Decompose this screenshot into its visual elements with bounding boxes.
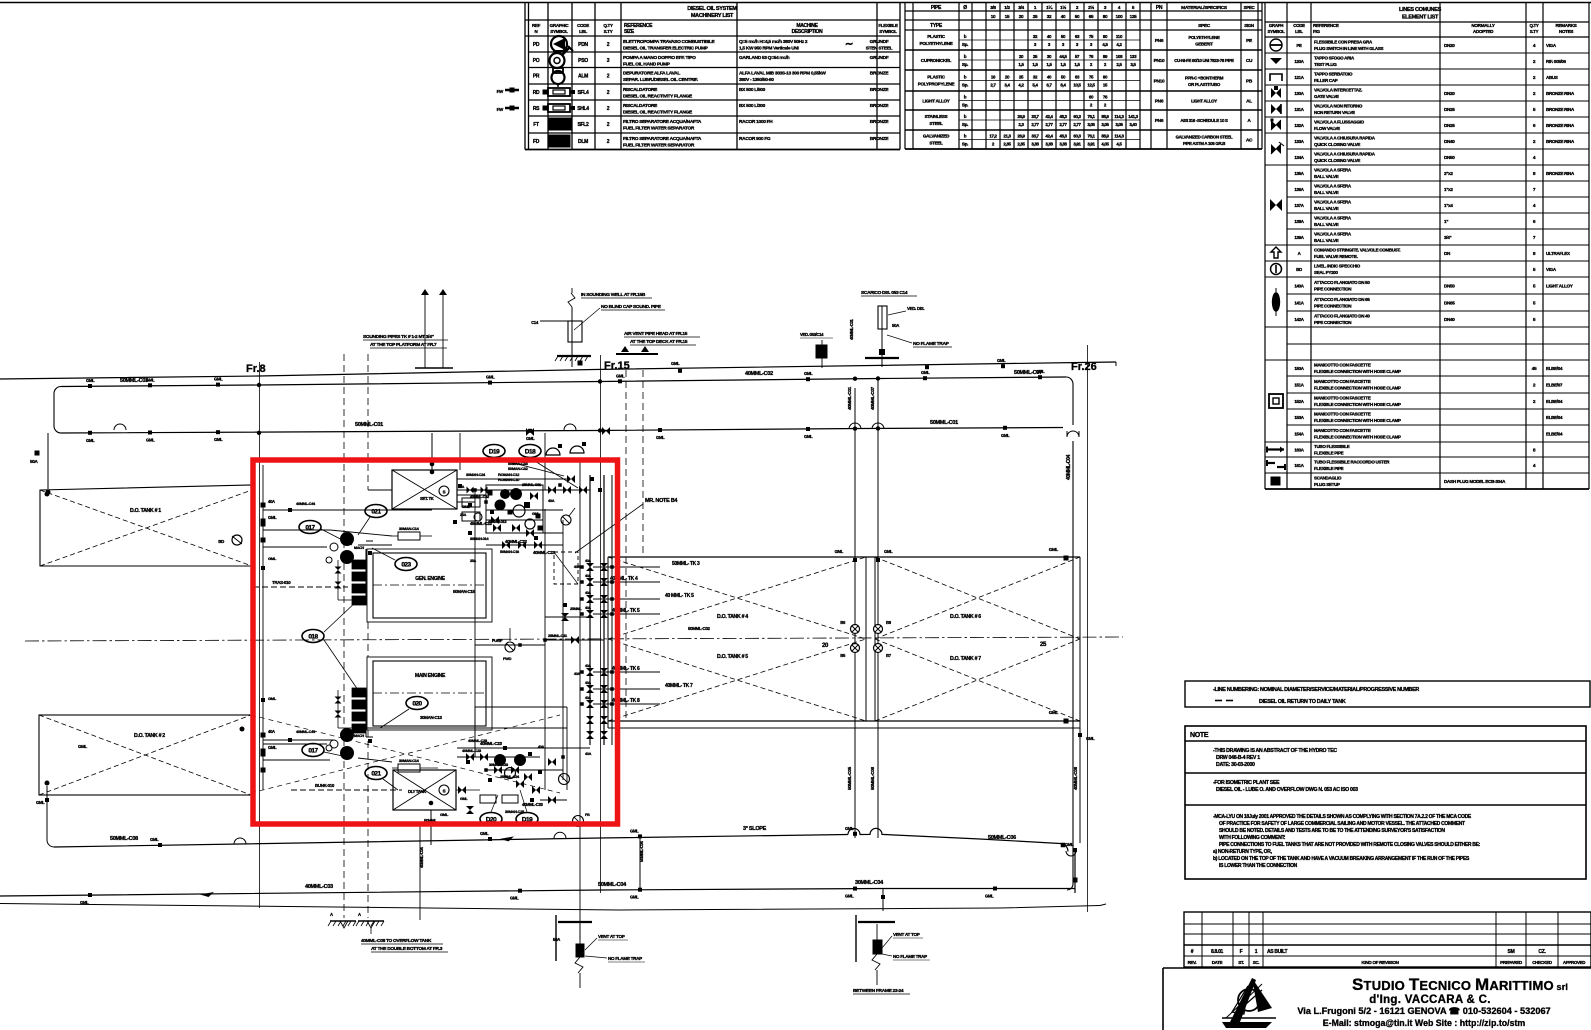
svg-text:DATE: 30-03-2000: DATE: 30-03-2000 bbox=[1216, 762, 1255, 768]
extra fuel piping detail top cluster bbox=[457, 483, 590, 541]
legend symbol gate valve bbox=[1271, 86, 1281, 98]
legend symbol quick closing valve bbox=[1271, 142, 1284, 154]
svg-text:SCARICO DIS. 053 C14: SCARICO DIS. 053 C14 bbox=[861, 290, 908, 296]
svg-text:133: 133 bbox=[1130, 54, 1137, 59]
label 018 bbox=[302, 600, 358, 690]
svg-text:3,05: 3,05 bbox=[1101, 122, 1109, 127]
svg-text:AL: AL bbox=[1246, 99, 1252, 105]
legend symbol remote control bbox=[1271, 247, 1281, 258]
svg-text:BETWEEN FRAME 23-24: BETWEEN FRAME 23-24 bbox=[853, 988, 904, 994]
label 021 main bbox=[365, 767, 398, 791]
line C01 valve bbox=[526, 427, 610, 436]
svg-text:40A: 40A bbox=[585, 574, 591, 578]
svg-text:2,5: 2,5 bbox=[1116, 62, 1122, 67]
svg-text:STEEL: STEEL bbox=[929, 141, 943, 146]
svg-text:LIVEL. INDIC SPECCHIO: LIVEL. INDIC SPECCHIO bbox=[1314, 264, 1361, 269]
svg-text:MANICOTTO CON FASCETTE: MANICOTTO CON FASCETTE bbox=[1314, 396, 1371, 401]
svg-text:50MML-C06: 50MML-C06 bbox=[870, 766, 875, 790]
svg-text:GML: GML bbox=[150, 837, 159, 842]
svg-text:WITH FOLLOWING COMMENT:: WITH FOLLOWING COMMENT: bbox=[1219, 835, 1286, 841]
svg-text:TYPE: TYPE bbox=[930, 23, 943, 29]
label D19 bbox=[483, 445, 564, 477]
revision table bbox=[1184, 912, 1591, 967]
svg-text:GRUNDF: GRUNDF bbox=[870, 55, 889, 61]
engine room pipes horizontal bbox=[330, 490, 711, 762]
svg-text:ATTACCO FLANGIATO DN 40: ATTACCO FLANGIATO DN 40 bbox=[1314, 314, 1370, 319]
svg-text:DN50: DN50 bbox=[1444, 284, 1455, 289]
svg-text:3,38: 3,38 bbox=[1045, 142, 1053, 147]
daily tank drain bbox=[430, 810, 432, 845]
svg-text:REMARKS: REMARKS bbox=[1555, 23, 1576, 28]
svg-text:BRONZE RINA: BRONZE RINA bbox=[1546, 91, 1575, 96]
svg-text:44,5: 44,5 bbox=[1059, 54, 1067, 59]
sounding well detail engine room bbox=[553, 915, 645, 988]
svg-text:121A: 121A bbox=[1294, 75, 1304, 80]
transfer dashed line main bbox=[291, 783, 402, 790]
purifier unit bbox=[486, 472, 543, 533]
svg-text:40MML- TK 7: 40MML- TK 7 bbox=[665, 683, 693, 689]
svg-text:OR PLASTITUBO: OR PLASTITUBO bbox=[1188, 82, 1221, 87]
svg-text:25MML-C31: 25MML-C31 bbox=[548, 633, 568, 638]
svg-text:BRONZE: BRONZE bbox=[870, 103, 890, 109]
svg-text:40MML-C33: 40MML-C33 bbox=[522, 802, 544, 807]
svg-text:3,5: 3,5 bbox=[1130, 62, 1136, 67]
machinery list rows bbox=[533, 39, 893, 149]
svg-text:DEPURATORE ALFA LAVAL: DEPURATORE ALFA LAVAL bbox=[623, 71, 680, 77]
svg-text:VIGA: VIGA bbox=[1546, 43, 1557, 48]
svg-text:PLASTIC: PLASTIC bbox=[927, 75, 946, 80]
svg-text:DIESEL OIL REACTIVITY FL: DIESEL OIL REACTIVITY FLANGE bbox=[623, 94, 693, 100]
svg-text:GML: GML bbox=[1049, 547, 1059, 552]
tank D.O. TANK 5 cross bbox=[608, 639, 866, 721]
legend symbol filler cap bbox=[1270, 74, 1282, 81]
svg-text:TRAS-010: TRAS-010 bbox=[272, 580, 291, 585]
svg-text:IS LOWER THAN THE CONNECTI: IS LOWER THAN THE CONNECTION bbox=[1219, 863, 1298, 869]
svg-text:PURIF: PURIF bbox=[492, 638, 503, 643]
svg-text:1,5 KW 950 RPM Verticale UNI: 1,5 KW 950 RPM Verticale UNI bbox=[739, 46, 800, 52]
svg-text:80: 80 bbox=[1103, 14, 1108, 19]
svg-text:40MML-C07: 40MML-C07 bbox=[870, 386, 875, 410]
label 017 gen bbox=[299, 521, 352, 546]
svg-text:2,77: 2,77 bbox=[1073, 122, 1081, 127]
svg-text:TEST PLUG: TEST PLUG bbox=[1314, 62, 1337, 67]
svg-text:DIESEL OIL TRANSFER ELECTRIC P: DIESEL OIL TRANSFER ELECTRIC PUMP bbox=[623, 46, 709, 52]
svg-text:FILLER CAP: FILLER CAP bbox=[1314, 78, 1338, 83]
svg-text:PIPE ASTM A 106 GR.B: PIPE ASTM A 106 GR.B bbox=[1183, 141, 1225, 146]
svg-text:BX 500 L/300: BX 500 L/300 bbox=[739, 103, 766, 109]
label 023 bbox=[372, 548, 417, 571]
svg-text:SIZE: SIZE bbox=[624, 29, 635, 35]
svg-text:FWD: FWD bbox=[503, 656, 512, 661]
svg-text:TUBO FLESSIBILE: TUBO FLESSIBILE bbox=[1314, 444, 1350, 449]
svg-text:Q.TY: Q.TY bbox=[603, 23, 613, 28]
fittings legend header bbox=[1268, 23, 1577, 34]
svg-text:GALVANIZED: GALVANIZED bbox=[923, 134, 950, 139]
svg-text:GML: GML bbox=[146, 438, 155, 443]
settling tank riser bbox=[430, 433, 435, 470]
svg-text:GML: GML bbox=[460, 797, 468, 801]
svg-text:DIESEL OIL SYSTEM: DIESEL OIL SYSTEM bbox=[687, 6, 737, 12]
svg-text:ROMAN-C10: ROMAN-C10 bbox=[498, 477, 520, 482]
tank quick closing valves cluster bbox=[840, 620, 891, 658]
svg-text:ATTACCO FLANGIATO DN 50: ATTACCO FLANGIATO DN 50 bbox=[1314, 280, 1370, 285]
svg-text:GML: GML bbox=[985, 894, 994, 899]
tank1 level gauge bbox=[218, 535, 242, 545]
sounding detail right x882 bbox=[849, 290, 952, 367]
svg-text:2,7: 2,7 bbox=[990, 83, 996, 88]
svg-text:ULTRAFLEX: ULTRAFLEX bbox=[1546, 251, 1570, 256]
label D20 ellipses bbox=[480, 790, 538, 826]
svg-text:20: 20 bbox=[1019, 14, 1024, 19]
svg-text:MANICOTTO CON FASCETTE: MANICOTTO CON FASCETTE bbox=[1314, 379, 1371, 384]
svg-text:2"x2: 2"x2 bbox=[1444, 171, 1453, 176]
svg-text:153A: 153A bbox=[1294, 415, 1304, 420]
svg-text:40MML-C04: 40MML-C04 bbox=[419, 846, 424, 868]
svg-text:Sp.: Sp. bbox=[962, 122, 968, 127]
svg-text:CUPRONICKEL: CUPRONICKEL bbox=[921, 58, 952, 63]
svg-text:25MML: 25MML bbox=[570, 607, 582, 611]
separator valves row bbox=[486, 541, 563, 549]
svg-text:40A: 40A bbox=[585, 681, 591, 685]
svg-text:3/4": 3/4" bbox=[1444, 235, 1451, 240]
svg-text:40A: 40A bbox=[268, 729, 275, 734]
svg-text:VENT AT TOP: VENT AT TOP bbox=[893, 932, 920, 937]
svg-text:S.TY: S.TY bbox=[604, 29, 613, 34]
svg-text:VALVOLA A SFERA: VALVOLA A SFERA bbox=[1314, 200, 1352, 205]
svg-text:40MML-C23: 40MML-C23 bbox=[462, 748, 482, 753]
svg-text:40: 40 bbox=[1061, 14, 1066, 19]
svg-text:4,2: 4,2 bbox=[1116, 42, 1122, 47]
svg-text:RISCALDATORE: RISCALDATORE bbox=[623, 87, 658, 93]
svg-text:SCANDAGLIO: SCANDAGLIO bbox=[1314, 476, 1342, 481]
tank vent riser x1080 bbox=[1073, 728, 1095, 843]
svg-text:DIESEL OIL REACTIVITY FL: DIESEL OIL REACTIVITY FLANGE bbox=[623, 110, 693, 116]
main engine feed pumps bbox=[330, 728, 354, 760]
svg-text:33,7: 33,7 bbox=[1031, 134, 1039, 139]
svg-text:50MML-C08: 50MML-C08 bbox=[110, 836, 138, 842]
svg-text:26,9: 26,9 bbox=[1017, 134, 1025, 139]
svg-text:FS: FS bbox=[585, 812, 590, 817]
engine room risers vertical bbox=[460, 433, 567, 790]
svg-text:FLEXIBLE CONNECTION WITH HOSE: FLEXIBLE CONNECTION WITH HOSE CLAMP bbox=[1314, 418, 1401, 423]
svg-text:151A: 151A bbox=[1294, 383, 1304, 388]
svg-text:D18: D18 bbox=[525, 449, 536, 456]
machinery list header bbox=[532, 23, 898, 35]
sounding pipe x580 bbox=[579, 462, 581, 940]
svg-text:1,5: 1,5 bbox=[1032, 62, 1038, 67]
machinery symbol heater M5 bbox=[543, 104, 576, 112]
svg-text:DLY TANK: DLY TANK bbox=[408, 789, 426, 794]
svg-text:30MAN-C14: 30MAN-C14 bbox=[399, 758, 420, 763]
deck line bbox=[0, 362, 1116, 379]
svg-text:SC.: SC. bbox=[1253, 960, 1260, 965]
svg-text:40MML-C23: 40MML-C23 bbox=[533, 550, 556, 555]
svg-text:NORMALLY: NORMALLY bbox=[1471, 23, 1494, 28]
svg-text:2,35: 2,35 bbox=[1017, 142, 1025, 147]
svg-text:40MML-C08 TO OVERFLOW TANK: 40MML-C08 TO OVERFLOW TANK bbox=[361, 938, 432, 944]
svg-text:1,5: 1,5 bbox=[1018, 62, 1024, 67]
svg-text:LINES COMUNES: LINES COMUNES bbox=[1399, 7, 1442, 13]
svg-text:BD: BD bbox=[1296, 267, 1302, 272]
svg-text:DRW 048-B-4 REV 1: DRW 048-B-4 REV 1 bbox=[1216, 755, 1260, 761]
svg-text:8.8.01: 8.8.01 bbox=[1211, 949, 1224, 955]
svg-text:CODE: CODE bbox=[1293, 23, 1305, 28]
svg-text:APPROVED: APPROVED bbox=[1563, 960, 1585, 965]
svg-text:QUICK CLOSING VALVE: QUICK CLOSING VALVE bbox=[1314, 158, 1360, 163]
tank2 hidden extent dashes bbox=[251, 715, 560, 793]
svg-text:BALL VALVE: BALL VALVE bbox=[1314, 190, 1339, 195]
svg-text:50MML- TK 3: 50MML- TK 3 bbox=[672, 561, 700, 567]
FW marks left of table bbox=[497, 88, 519, 95]
svg-text:AT THE TOP DECK AT FR.15: AT THE TOP DECK AT FR.15 bbox=[630, 339, 688, 345]
svg-text:Q.TY: Q.TY bbox=[1529, 23, 1538, 28]
svg-text:137A: 137A bbox=[1294, 203, 1304, 208]
svg-text:BRONZE RINA: BRONZE RINA bbox=[1546, 123, 1575, 128]
svg-text:Sp.: Sp. bbox=[962, 42, 968, 47]
svg-text:FUEL FILTER WATER SEPARATOR: FUEL FILTER WATER SEPARATOR bbox=[623, 143, 695, 149]
label 020 bbox=[380, 697, 428, 729]
svg-text:SEAL PY200: SEAL PY200 bbox=[1314, 270, 1338, 275]
svg-text:MANICOTTO CON FASCETTE: MANICOTTO CON FASCETTE bbox=[1314, 412, 1371, 417]
svg-text:PLASTIC: PLASTIC bbox=[927, 34, 946, 39]
svg-text:3,40: 3,40 bbox=[1129, 122, 1137, 127]
svg-text:1,5: 1,5 bbox=[1060, 62, 1066, 67]
svg-text:VALVOLA A SFERA: VALVOLA A SFERA bbox=[1314, 168, 1352, 173]
svg-text:BALL VALVE: BALL VALVE bbox=[1314, 222, 1339, 227]
svg-text:SYMBOL: SYMBOL bbox=[879, 29, 897, 34]
extra mid connections bbox=[475, 617, 604, 647]
svg-text:FLEXIBLE CONNECTION WITH HOSE: FLEXIBLE CONNECTION WITH HOSE CLAMP bbox=[1314, 402, 1401, 407]
svg-text:MR. NOTE B4: MR. NOTE B4 bbox=[645, 498, 678, 504]
pipe drop to tank1 bbox=[30, 433, 51, 495]
title block frame bbox=[1163, 968, 1591, 1030]
svg-text:100: 100 bbox=[1116, 14, 1124, 19]
extra engine details bbox=[326, 541, 373, 751]
gen engine connection blocks bbox=[335, 560, 367, 605]
svg-text:D.O. TANK # 5: D.O. TANK # 5 bbox=[717, 654, 748, 660]
svg-text:SFL4: SFL4 bbox=[577, 90, 589, 96]
settling tank top bbox=[392, 470, 457, 509]
svg-text:KIND OF REVISION: KIND OF REVISION bbox=[1361, 960, 1399, 965]
svg-text:BRONZE: BRONZE bbox=[870, 136, 890, 142]
air vent label left bbox=[363, 334, 448, 348]
svg-text:1"x4: 1"x4 bbox=[1444, 203, 1453, 208]
svg-text:GML: GML bbox=[268, 515, 277, 520]
svg-text:40MML-C44: 40MML-C44 bbox=[296, 729, 316, 734]
svg-text:FILTRO SEPARATORE ACQUA/NAFTA: FILTRO SEPARATORE ACQUA/NAFTA bbox=[623, 119, 702, 125]
svg-text:Sp.: Sp. bbox=[962, 142, 968, 147]
pipe junction marks line C01 bbox=[86, 426, 1010, 443]
label 017 main bbox=[302, 744, 352, 759]
svg-text:BRONZE RINA: BRONZE RINA bbox=[1546, 171, 1575, 176]
svg-text:CODE: CODE bbox=[577, 23, 589, 28]
svg-text:3° SLOPE: 3° SLOPE bbox=[743, 826, 767, 832]
svg-text:PSO: PSO bbox=[578, 58, 588, 64]
svg-text:SYMBOL: SYMBOL bbox=[550, 29, 568, 34]
svg-text:130A: 130A bbox=[1294, 91, 1304, 96]
extra left stub labels bbox=[261, 501, 327, 744]
sounding pipe dashed x643 bbox=[642, 370, 644, 557]
svg-text:b) LOCATED ON THE TOP OF: b) LOCATED ON THE TOP OF THE TANK AND HA… bbox=[1213, 856, 1470, 862]
svg-text:GML: GML bbox=[616, 373, 625, 378]
svg-text:GML: GML bbox=[1065, 842, 1074, 847]
svg-text:25MML-C34: 25MML-C34 bbox=[500, 774, 520, 779]
extra manifold stub labels bbox=[585, 559, 591, 700]
svg-text:POLYETHYLENE: POLYETHYLENE bbox=[1188, 35, 1220, 40]
svg-text:NON RETURN VALVE: NON RETURN VALVE bbox=[1314, 110, 1355, 115]
breather dome 1 bbox=[546, 444, 562, 455]
svg-text:NO FLAME TRAP: NO FLAME TRAP bbox=[893, 954, 927, 959]
extra manifold squares bbox=[610, 475, 614, 745]
sounding pipe dashed x368 bbox=[367, 354, 369, 918]
svg-text:FT: FT bbox=[533, 122, 539, 128]
svg-text:GRUNDF: GRUNDF bbox=[870, 39, 889, 45]
svg-text:VALVOLA A FLUSSAGGIO: VALVOLA A FLUSSAGGIO bbox=[1314, 120, 1365, 125]
deck line junction marks bbox=[671, 358, 1006, 373]
svg-text:MACHINERY LIST: MACHINERY LIST bbox=[691, 13, 734, 19]
svg-text:42,4: 42,4 bbox=[1045, 114, 1053, 119]
svg-text:A: A bbox=[358, 912, 361, 917]
svg-text:FLESSIBILE CON PRESA GRA: FLESSIBILE CON PRESA GRA bbox=[1314, 40, 1373, 45]
svg-text:50A: 50A bbox=[553, 937, 561, 942]
svg-text:D.O. TANK # 1: D.O. TANK # 1 bbox=[130, 508, 161, 514]
svg-text:BRONZE RINA: BRONZE RINA bbox=[1546, 107, 1575, 112]
svg-text:-LINE NUMBERING: NOMINAL DIAM: -LINE NUMBERING: NOMINAL DIAMETER/SERVIC… bbox=[1213, 687, 1419, 693]
svg-text:STEN STEEL: STEN STEEL bbox=[866, 46, 893, 52]
svg-text:FLOW VALVE: FLOW VALVE bbox=[1314, 126, 1340, 131]
overflow funnels bottom bbox=[328, 921, 384, 934]
deck triangles near Fr15 bbox=[616, 331, 700, 354]
machinery list table title bbox=[687, 6, 737, 19]
svg-text:GARLAND 53 Q=54 mc/h: GARLAND 53 Q=54 mc/h bbox=[739, 55, 790, 61]
svg-text:SHL4: SHL4 bbox=[577, 106, 589, 112]
svg-text:30MAN-C13: 30MAN-C13 bbox=[420, 715, 443, 720]
svg-text:50A: 50A bbox=[892, 323, 900, 328]
svg-text:SOUNDING PIPES TK # 1-2 MT 3/4: SOUNDING PIPES TK # 1-2 MT 3/4″ bbox=[363, 334, 435, 340]
svg-text:30MAN-C25: 30MAN-C25 bbox=[505, 809, 525, 814]
svg-text:POLYETHYLENE: POLYETHYLENE bbox=[920, 41, 953, 46]
svg-text:1": 1" bbox=[1444, 219, 1448, 224]
svg-text:45: 45 bbox=[1532, 366, 1537, 372]
svg-text:FLEXIBLE CONNECTION WITH HOSE: FLEXIBLE CONNECTION WITH HOSE CLAMP bbox=[1314, 386, 1401, 391]
svg-text:AC: AC bbox=[1246, 138, 1253, 144]
svg-text:48,3: 48,3 bbox=[1059, 114, 1067, 119]
svg-text:MANICOTTO CON FASCETTE: MANICOTTO CON FASCETTE bbox=[1314, 363, 1371, 368]
svg-text:SM: SM bbox=[1508, 949, 1515, 955]
svg-text:017: 017 bbox=[308, 748, 318, 755]
machinery symbol separator M3 bbox=[552, 68, 565, 87]
svg-text:BRONZE: BRONZE bbox=[870, 87, 890, 93]
junction marks suction pipe bbox=[150, 826, 1077, 852]
svg-text:DESCRIPTION: DESCRIPTION bbox=[792, 29, 824, 35]
svg-text:114,3: 114,3 bbox=[1114, 134, 1124, 139]
pipe riser right x1073 bbox=[1049, 384, 1079, 890]
svg-text:30MAN-014: 30MAN-014 bbox=[470, 536, 489, 541]
svg-text:Sp.: Sp. bbox=[962, 62, 968, 67]
svg-text:25A: 25A bbox=[470, 559, 477, 563]
svg-text:BALL VALVE: BALL VALVE bbox=[1314, 206, 1339, 211]
legend symbol flexible pipe 2 bbox=[1267, 460, 1285, 470]
svg-text:CZ.: CZ. bbox=[1538, 949, 1546, 955]
overflow label bottom bbox=[361, 938, 448, 952]
svg-text:BUNK-010: BUNK-010 bbox=[315, 783, 335, 788]
svg-text:MACH: MACH bbox=[354, 546, 364, 550]
legend symbol non return valve bbox=[1271, 104, 1281, 114]
svg-text:2,77: 2,77 bbox=[1031, 122, 1039, 127]
svg-text:GML: GML bbox=[835, 549, 844, 554]
svg-text:REFERENCE: REFERENCE bbox=[1313, 23, 1339, 28]
svg-text:018: 018 bbox=[308, 634, 318, 641]
legend symbol flanged connection bbox=[1273, 288, 1280, 316]
frame Fr.8 bbox=[246, 362, 266, 908]
gen engine feed pumps bbox=[330, 532, 354, 564]
drop to hull x883 bbox=[881, 889, 885, 912]
svg-text:FLEXIBLE CONNECTION WITH HOSE: FLEXIBLE CONNECTION WITH HOSE CLAMP bbox=[1314, 369, 1401, 374]
pipe schedule table grid bbox=[905, 3, 1262, 150]
svg-text:PN6: PN6 bbox=[1155, 118, 1164, 124]
svg-text:OF PRACTICE FOR SAFETY OF LA: OF PRACTICE FOR SAFETY OF LARGE COMMERCI… bbox=[1219, 821, 1465, 827]
svg-text:2,35: 2,35 bbox=[1003, 142, 1011, 147]
svg-text:Q=5 mc/h H=4,5 mc/h 380V 50Hz: Q=5 mc/h H=4,5 mc/h 380V 50Hz 2 bbox=[739, 39, 808, 45]
svg-text:BX 500 L/500: BX 500 L/500 bbox=[739, 87, 766, 93]
svg-text:RIF. 005/06: RIF. 005/06 bbox=[1546, 59, 1567, 64]
svg-text:ELBE/07: ELBE/07 bbox=[1546, 383, 1563, 388]
svg-text:FIG: FIG bbox=[1313, 29, 1320, 34]
svg-text:RS: RS bbox=[533, 106, 540, 112]
svg-text:ELBE/04: ELBE/04 bbox=[1546, 415, 1563, 420]
svg-text:1"x2: 1"x2 bbox=[1444, 187, 1453, 192]
svg-text:PO: PO bbox=[533, 58, 540, 64]
svg-text:TAPPO SERBATOIO: TAPPO SERBATOIO bbox=[1314, 72, 1353, 77]
svg-text:GML: GML bbox=[86, 438, 95, 443]
tank D.O. TANK 4 cross bbox=[608, 557, 866, 639]
svg-text:5,4: 5,4 bbox=[1032, 83, 1038, 88]
svg-text:Sp.: Sp. bbox=[962, 103, 968, 108]
svg-text:AT THE TOP PLATFORM AT FR.7: AT THE TOP PLATFORM AT FR.7 bbox=[370, 342, 437, 348]
svg-text:TUBO FLESSIBILE RACCORDO USTER: TUBO FLESSIBILE RACCORDO USTER bbox=[1314, 460, 1390, 465]
note box bbox=[1185, 726, 1586, 879]
svg-text:TAPPO SFOGO ARIA: TAPPO SFOGO ARIA bbox=[1314, 56, 1355, 61]
svg-text:DLM: DLM bbox=[578, 139, 588, 145]
svg-text:ST.: ST. bbox=[1238, 960, 1244, 965]
svg-text:141A: 141A bbox=[1294, 301, 1304, 306]
svg-text:DASH PLUG MODEL ECB-304A: DASH PLUG MODEL ECB-304A bbox=[1444, 479, 1506, 484]
svg-text:PIPE CONNECTION: PIPE CONNECTION bbox=[1314, 287, 1351, 292]
svg-text:4,2: 4,2 bbox=[1018, 83, 1024, 88]
svg-text:4,5: 4,5 bbox=[1102, 42, 1108, 47]
svg-text:50MML-C04: 50MML-C04 bbox=[639, 840, 644, 862]
svg-text:15: 15 bbox=[1005, 14, 1010, 19]
settling tank outlet bbox=[368, 479, 567, 490]
company subtitle bbox=[1369, 994, 1491, 1006]
svg-text:25: 25 bbox=[1040, 642, 1047, 648]
svg-text:2,77: 2,77 bbox=[1045, 122, 1053, 127]
pipe junction marks line C03 bbox=[86, 369, 1045, 388]
svg-text:50MAN-C16: 50MAN-C16 bbox=[500, 549, 520, 554]
svg-text:BALL VALVE: BALL VALVE bbox=[1314, 238, 1339, 243]
svg-text:30MAN-C33: 30MAN-C33 bbox=[489, 762, 509, 767]
svg-text:40A: 40A bbox=[585, 606, 591, 610]
svg-text:40MML-C04: 40MML-C04 bbox=[1066, 454, 1072, 480]
svg-text:40MML-C32: 40MML-C32 bbox=[470, 494, 490, 499]
legend symbol ball valve bbox=[1270, 199, 1282, 211]
svg-text:50MML-C02: 50MML-C02 bbox=[688, 626, 711, 631]
svg-text:SPEC: SPEC bbox=[1244, 5, 1256, 10]
svg-text:FW: FW bbox=[497, 107, 504, 112]
svg-text:25A: 25A bbox=[460, 513, 467, 517]
legend symbol level indicator bbox=[1271, 264, 1282, 275]
pipe schedule header bbox=[930, 4, 1255, 29]
